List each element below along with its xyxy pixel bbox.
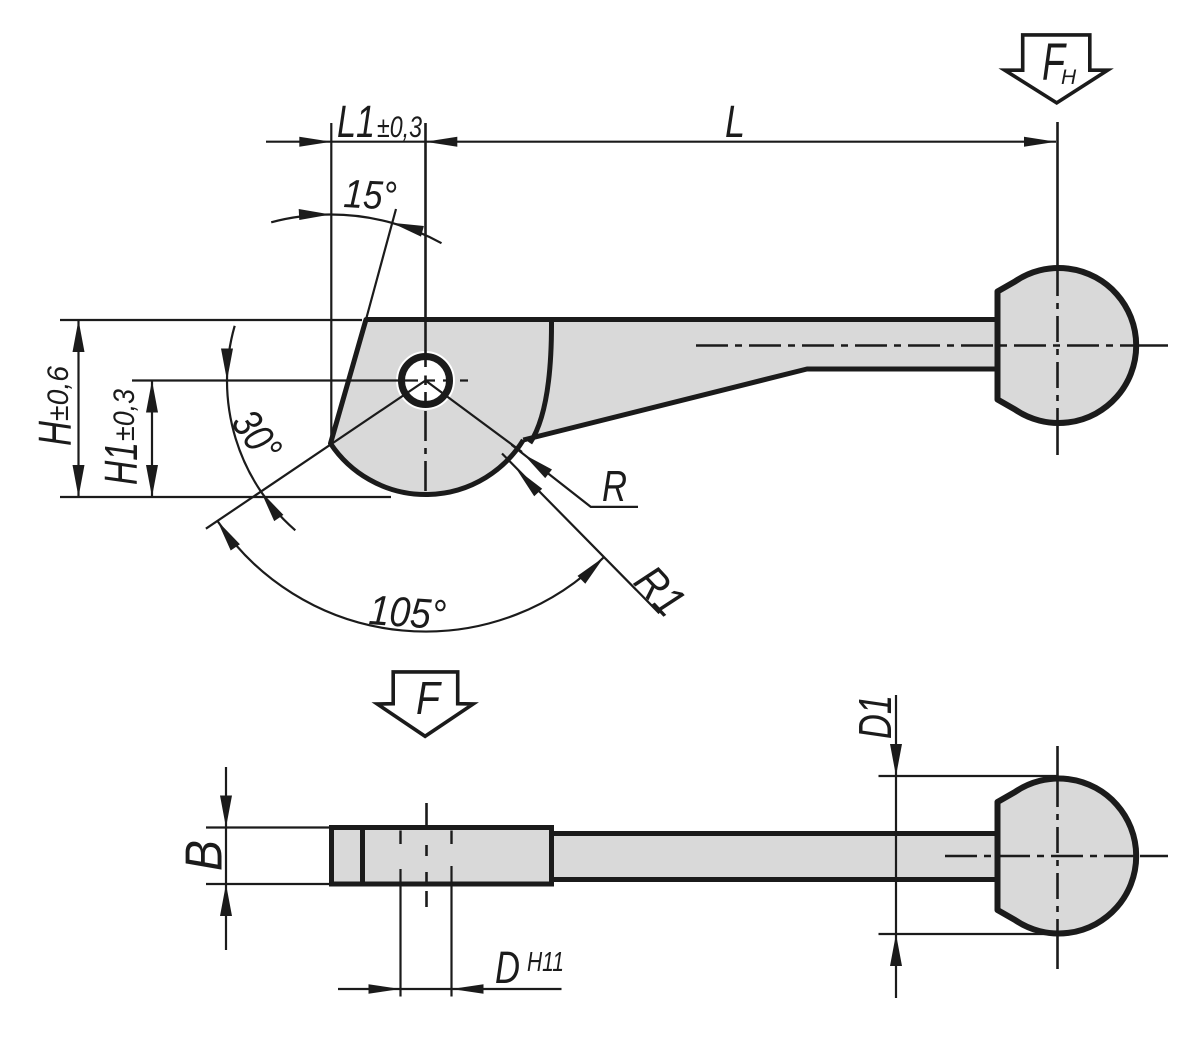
label D1 — [849, 695, 901, 739]
H dimension line — [77, 320, 79, 497]
lower ball vertical centerline — [1056, 746, 1059, 781]
label H — [29, 420, 81, 446]
horizontal centerline through hole / H1 extension — [132, 379, 418, 381]
arrow D right — [452, 984, 484, 994]
svg-text:105°: 105° — [367, 586, 447, 638]
D dimension line — [338, 988, 562, 990]
R1 line — [502, 454, 659, 614]
arrow L1 left — [299, 137, 331, 147]
lower horizontal centerline — [945, 855, 1140, 858]
label 105deg — [367, 586, 447, 638]
D1 ext top — [879, 775, 1059, 777]
arrow D left — [369, 984, 401, 994]
arrow 30 bottom — [261, 492, 284, 522]
F hollow force arrow — [377, 672, 473, 736]
svg-text:L: L — [725, 96, 745, 147]
label 15deg — [343, 172, 398, 219]
B dimension line — [225, 767, 227, 950]
B ext bottom — [206, 883, 332, 885]
svg-text:H: H — [29, 420, 81, 446]
arrow H bottom — [73, 465, 85, 497]
lever outline top edge — [366, 317, 998, 322]
arrow 105 right — [578, 557, 604, 584]
arrow R — [523, 454, 552, 478]
arrow 15 left — [299, 209, 331, 220]
svg-text:B: B — [176, 840, 234, 871]
D1 dimension line — [895, 695, 897, 998]
105 deg arc — [217, 521, 604, 632]
ball knob (upper view) — [998, 268, 1137, 423]
svg-text:±0,6: ±0,6 — [42, 366, 75, 421]
arm bottom edge — [552, 877, 998, 882]
arm top edge — [552, 831, 998, 836]
svg-text:L1: L1 — [337, 96, 375, 147]
arrow D1 bottom — [890, 934, 902, 966]
arrow 105 left — [217, 521, 240, 551]
svg-text:F: F — [416, 672, 442, 724]
radial thin line C at 36 deg — [426, 381, 523, 453]
F_H hollow force arrow — [1005, 35, 1108, 103]
cam bottom arc R1 — [331, 440, 524, 495]
label 30deg rotated — [223, 401, 292, 471]
H top ext line — [60, 319, 362, 321]
vertical centerline of hub (solid above + through hole, dashdot below) — [424, 123, 427, 367]
dimension line L1 / L — [266, 141, 1056, 143]
hole white halo — [402, 357, 450, 405]
arrow L right — [1024, 137, 1056, 147]
bottom ext line — [60, 496, 391, 498]
arrow 30 top — [221, 349, 233, 381]
arrow D1 top — [890, 744, 902, 776]
hub left edge (15 deg slant) — [331, 320, 367, 444]
svg-text:30°: 30° — [223, 401, 292, 471]
svg-text:±0,3: ±0,3 — [108, 389, 141, 441]
radial thin line C to corner extended (34 deg) — [206, 381, 426, 529]
label R1 rotated — [625, 556, 695, 626]
arrow 15 right — [392, 223, 424, 237]
label H1 — [95, 442, 147, 485]
H1 dimension line — [151, 381, 153, 498]
R leader — [512, 445, 639, 507]
hidden hole line left — [399, 831, 401, 845]
svg-text:D: D — [495, 942, 520, 993]
block vertical centerline — [425, 803, 428, 826]
hub hole — [402, 357, 450, 405]
ball knob (lower view) — [998, 778, 1137, 933]
hidden hole line right — [450, 831, 452, 845]
svg-text:H: H — [1061, 66, 1077, 89]
B ext top — [206, 826, 332, 828]
cam internal edge — [530, 320, 552, 443]
svg-text:H11: H11 — [527, 946, 564, 977]
D1 ext bottom — [879, 933, 1059, 935]
svg-text:H1: H1 — [95, 442, 147, 485]
15 deg arc — [271, 215, 330, 223]
lever body fill (hub + arm) — [331, 320, 1001, 495]
arrow B top — [220, 796, 232, 828]
arm horizontal centerline (dash-dot) — [696, 344, 1141, 347]
arrow H1 top — [146, 381, 158, 413]
svg-text:15°: 15° — [343, 172, 398, 219]
15 deg thin slant line extension — [366, 209, 396, 320]
svg-text:R1: R1 — [625, 556, 695, 626]
label B — [176, 840, 234, 871]
30 deg arc — [227, 326, 235, 381]
svg-text:R: R — [602, 462, 627, 511]
lever outline bottom arm edge — [523, 369, 997, 440]
ball vertical centerline — [1056, 122, 1059, 270]
svg-text:D1: D1 — [849, 695, 901, 739]
arm fill (lower view) — [552, 834, 998, 880]
L1 extension line left — [330, 123, 332, 444]
arrow H1 bottom — [146, 465, 158, 497]
arrow B bottom — [220, 884, 232, 916]
hub block (lower view) — [332, 828, 552, 885]
block divider — [360, 828, 365, 885]
svg-text:±0,3: ±0,3 — [377, 111, 422, 144]
arrow H top — [73, 320, 85, 352]
arrow R1 — [516, 469, 542, 496]
arrow L1 right — [425, 137, 457, 147]
